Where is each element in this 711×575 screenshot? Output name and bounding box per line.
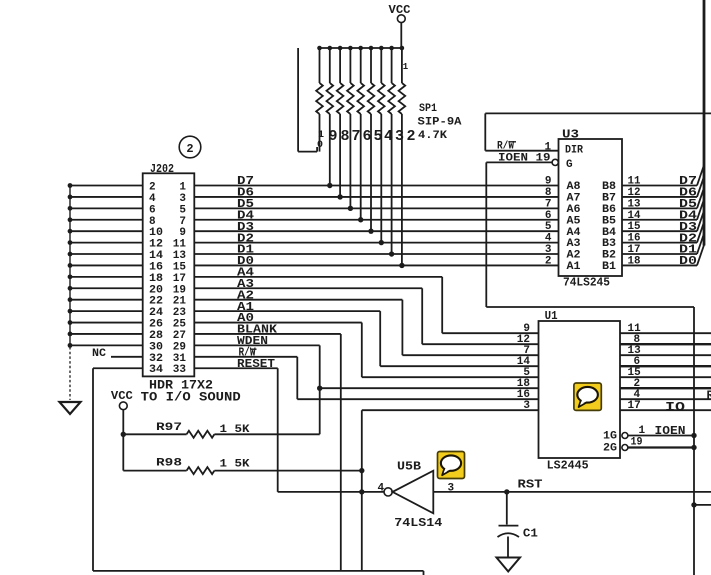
wire D4 diagonal to bus: [697, 199, 704, 220]
wire A0 from J202: [194, 322, 361, 324]
svg-text:28: 28: [149, 330, 163, 342]
wire J202 pin 26 to ground bus: [70, 322, 143, 324]
wire J202 pin 8 to ground bus: [70, 219, 143, 221]
wire J202 pin 24 to ground bus: [70, 310, 143, 312]
inverter U5B 74LS14: [393, 471, 434, 514]
svg-text:B4: B4: [602, 227, 616, 239]
wire R/W from J202: [194, 356, 297, 358]
svg-text:21: 21: [173, 296, 187, 308]
svg-text:R: R: [707, 389, 711, 403]
junction SP1 element 6 to data bus: [368, 228, 373, 233]
svg-text:9: 9: [179, 227, 186, 239]
junction ground bus row 13: [68, 320, 73, 325]
wire U3 B4 out: [622, 230, 697, 232]
svg-text:B5: B5: [602, 215, 616, 227]
junction SP1 element 5 to data bus: [358, 217, 363, 222]
junction SP1 element 9 to data bus: [399, 263, 404, 268]
wire BLANK to bottom rail: [340, 334, 342, 571]
wire WDEN from J202: [194, 344, 319, 346]
wire A2 from J202: [194, 299, 402, 301]
junction RESET riser / RST line: [359, 489, 364, 494]
junction ground bus row 9: [68, 274, 73, 279]
svg-text:2G: 2G: [603, 442, 617, 454]
wire A4 from J202: [194, 276, 442, 278]
svg-text:NC: NC: [92, 348, 106, 360]
svg-text:27: 27: [173, 330, 186, 342]
junction ground bus row 3: [68, 206, 73, 211]
wire U1 out row 4: [620, 365, 711, 367]
wire U1 out row 3: [620, 354, 711, 356]
svg-text:8: 8: [340, 128, 349, 145]
wire U3 B6 out: [622, 207, 697, 209]
svg-text:J202: J202: [150, 162, 174, 176]
svg-text:6: 6: [362, 128, 371, 145]
wire J202 pin 30 to ground bus: [70, 344, 143, 346]
junction ground bus row 2: [68, 195, 73, 200]
junction IOEN / U1 1G: [691, 433, 696, 438]
svg-text:8: 8: [545, 187, 552, 199]
junction IOEN lower stub: [691, 502, 696, 507]
svg-text:A5: A5: [567, 215, 581, 227]
wire D1 from J202: [194, 253, 558, 255]
wire U1 out row 7: [620, 398, 711, 400]
svg-text:26: 26: [149, 319, 163, 331]
wire J202 pin 22 to ground bus: [70, 299, 143, 301]
junction ground bus row 1: [68, 183, 73, 188]
svg-text:1 5K: 1 5K: [220, 459, 250, 471]
junction ground bus row 8: [68, 263, 73, 268]
wire J202 pin 20 to ground bus: [70, 287, 143, 289]
svg-text:11: 11: [173, 239, 187, 251]
resistor R97 1.5K: [123, 433, 186, 435]
junction IOEN / U1 2G: [691, 445, 696, 450]
junction SP1 element 7 to data bus: [379, 240, 384, 245]
svg-text:14: 14: [149, 250, 163, 262]
VCC pullup terminal circle: [119, 402, 127, 410]
annotation icon (on U1): [574, 383, 601, 410]
resistor SP1 element 7: [380, 48, 382, 83]
resistor SP1 element 2: [329, 48, 331, 83]
svg-text:4: 4: [545, 233, 552, 245]
svg-text:LS2445: LS2445: [547, 459, 589, 473]
wire U1 out row 1: [620, 332, 711, 334]
junction SP1 bus dot 2: [328, 46, 333, 51]
junction SP1 bus dot 6: [369, 46, 374, 51]
svg-text:5: 5: [179, 204, 186, 216]
wire U3 B8 out: [622, 185, 697, 187]
wire D4 from J202: [194, 219, 558, 221]
resistor SP1 element 5: [360, 48, 362, 83]
svg-text:29: 29: [173, 341, 186, 353]
wire A2 staircase to U1: [401, 300, 403, 356]
wire D3 from J202: [194, 230, 558, 232]
svg-text:16: 16: [149, 261, 163, 273]
svg-text:A6: A6: [567, 204, 581, 216]
svg-text:19: 19: [631, 437, 643, 449]
svg-text:B3: B3: [602, 238, 616, 250]
svg-text:31: 31: [173, 353, 187, 365]
wire A3 staircase to U1: [421, 288, 423, 344]
junction SP1 bus dot 5: [358, 46, 363, 51]
wire D6 diagonal to bus: [697, 176, 704, 197]
svg-text:2: 2: [406, 128, 415, 145]
wire D7 from J202: [194, 185, 558, 187]
wire U1 1G to IOEN: [628, 435, 694, 437]
connector J202 outline: [143, 173, 195, 376]
svg-text:17: 17: [173, 273, 186, 285]
junction SP1 element 3 to data bus: [337, 194, 342, 199]
wire J202 pin 2 to ground bus: [70, 185, 143, 187]
wire NC stub: [111, 356, 143, 358]
svg-text:19: 19: [173, 284, 186, 296]
wire U3 B1 out: [622, 264, 697, 266]
svg-text:74LS14: 74LS14: [394, 516, 442, 530]
ground (C1): [497, 558, 521, 572]
svg-text:SP1: SP1: [419, 103, 437, 115]
wire WDEN to U1 pin 18: [320, 387, 539, 389]
wire RESET drop to U5B: [277, 368, 279, 492]
wire U1 out row 5: [620, 376, 711, 378]
buffer U1 LS244 outline: [539, 321, 621, 458]
svg-text:32: 32: [149, 353, 163, 365]
junction SP1 bus dot 7: [379, 46, 384, 51]
wire RST to C1: [506, 492, 508, 525]
svg-text:23: 23: [173, 307, 187, 319]
svg-text:74LS245: 74LS245: [563, 276, 610, 290]
wire R/W bus exit (top right): [485, 112, 711, 114]
ground (left bus): [60, 402, 81, 414]
junction SP1 element 2 to data bus: [327, 183, 332, 188]
svg-text:TO I/O SOUND: TO I/O SOUND: [141, 390, 241, 405]
svg-text:4: 4: [384, 128, 393, 145]
svg-text:30: 30: [149, 341, 163, 353]
wire A3 from J202: [194, 287, 422, 289]
svg-text:A7: A7: [567, 193, 581, 205]
overline R/W (J202 fan): [251, 348, 257, 350]
junction ground bus row 6: [68, 240, 73, 245]
svg-text:3: 3: [179, 193, 186, 205]
wire left ground bus: [69, 186, 71, 348]
resistor SP1 element 4: [349, 48, 351, 83]
wire D2 from J202: [194, 242, 558, 244]
wire RESET from J202: [194, 367, 277, 369]
wire data bus (right edge): [703, 0, 706, 246]
svg-text:20: 20: [149, 284, 163, 296]
U5B output bubble: [384, 488, 392, 496]
resistor SP1 element 3: [339, 48, 341, 83]
svg-text:D0: D0: [679, 254, 697, 268]
overline R/W (U3): [510, 141, 517, 143]
svg-text:IOEN: IOEN: [655, 424, 686, 438]
svg-text:10: 10: [149, 227, 163, 239]
wire IOEN to U3 G: [486, 161, 552, 163]
junction ground bus row 11: [68, 297, 73, 302]
svg-text:B1: B1: [602, 261, 616, 273]
wire U1 2G to IOEN: [628, 446, 694, 448]
wire J202 pin 10 to ground bus: [70, 230, 143, 232]
wire D6 from J202: [194, 196, 558, 198]
wire D2 diagonal to bus: [697, 222, 704, 243]
svg-text:B6: B6: [602, 204, 616, 216]
svg-text:7: 7: [545, 198, 552, 210]
resistor SP1 element 9: [401, 48, 403, 83]
svg-text:7: 7: [179, 216, 186, 228]
wire D7 diagonal to bus: [697, 165, 704, 186]
wire U3 B3 out: [622, 242, 697, 244]
junction SP1 element 4 to data bus: [348, 206, 353, 211]
wire R/W to U1 pin 16: [296, 357, 298, 399]
resistor SP1 element 8: [391, 48, 393, 83]
svg-text:R97: R97: [156, 422, 182, 434]
resistor R98 1.5K: [123, 470, 186, 472]
wire J202 pin 16 to ground bus: [70, 264, 143, 266]
wire J202 pin 14 to ground bus: [70, 253, 143, 255]
wire J202 pin 4 to ground bus: [70, 196, 143, 198]
junction ground bus row 15: [68, 343, 73, 348]
wire WDEN drop: [319, 345, 321, 434]
wire U1 out row 6 (bold): [620, 387, 711, 389]
wire BLANK from J202: [194, 333, 340, 335]
svg-text:9: 9: [545, 176, 552, 188]
svg-text:22: 22: [149, 296, 163, 308]
svg-text:A1: A1: [567, 261, 581, 273]
wire U1 out row 4 (bold): [620, 365, 711, 367]
wire U3 B5 out: [622, 219, 697, 221]
U1 2G inversion bubble: [622, 445, 628, 451]
svg-text:B8: B8: [602, 181, 616, 193]
wire A1 staircase to U1: [379, 311, 381, 366]
svg-text:8: 8: [149, 216, 156, 228]
svg-text:3: 3: [545, 244, 552, 256]
svg-text:B7: B7: [602, 193, 616, 205]
wire J202 pin 12 to ground bus: [70, 242, 143, 244]
svg-text:A4: A4: [567, 227, 581, 239]
U3 G inversion bubble: [552, 159, 558, 165]
wire U1 out row 6: [620, 387, 711, 389]
junction SP1 bus dot 9: [400, 46, 405, 51]
resistor SP1 element 1: [319, 48, 321, 83]
VCC terminal circle: [397, 15, 405, 23]
wire U1 out row 8: [620, 409, 711, 411]
svg-text:4: 4: [149, 193, 156, 205]
svg-text:15: 15: [173, 261, 187, 273]
buffer U3 74LS245 outline: [559, 139, 623, 276]
svg-text:4: 4: [378, 482, 385, 494]
svg-text:DIR: DIR: [565, 145, 583, 157]
junction SP1 bus dot 8: [389, 46, 394, 51]
junction ground bus row 7: [68, 252, 73, 257]
wire A4 staircase to U1: [441, 277, 443, 333]
svg-text:12: 12: [149, 239, 163, 251]
svg-text:4.7K: 4.7K: [418, 130, 447, 142]
svg-text:3: 3: [523, 400, 530, 412]
wire U1 out row 2: [620, 343, 711, 345]
wire RESET net riser / U1 pin 3: [361, 410, 363, 571]
wire J202 pin 18 to ground bus: [70, 276, 143, 278]
svg-text:17: 17: [628, 400, 641, 412]
svg-text:3: 3: [395, 128, 404, 145]
svg-text:1: 1: [179, 182, 186, 194]
svg-text:1: 1: [403, 62, 409, 72]
wire right edge stub: [694, 504, 711, 506]
svg-text:25: 25: [173, 319, 187, 331]
svg-text:6: 6: [545, 210, 552, 222]
svg-text:U5B: U5B: [397, 459, 421, 473]
wire J202 pin 28 to ground bus: [70, 333, 143, 335]
svg-text:G: G: [566, 159, 573, 171]
svg-text:VCC: VCC: [111, 389, 133, 403]
wire A1 from J202: [194, 310, 380, 312]
svg-text:A8: A8: [567, 181, 581, 193]
U1 1G inversion bubble: [622, 433, 628, 439]
svg-text:RESET: RESET: [237, 357, 275, 371]
junction SP1 element 8 to data bus: [389, 251, 394, 256]
svg-text:1: 1: [639, 425, 646, 437]
svg-text:IO: IO: [665, 399, 685, 414]
wire D0 diagonal to bus: [697, 244, 704, 265]
svg-text:3: 3: [448, 482, 455, 494]
wire U1 out row 2 (bold): [620, 343, 711, 345]
wire U3 B7 out: [622, 196, 697, 198]
wire left ground bus (lower, faded): [69, 347, 71, 400]
svg-text:7: 7: [351, 128, 360, 145]
svg-text:R98: R98: [156, 458, 183, 470]
svg-text:5: 5: [373, 128, 382, 145]
junction RST / C1: [504, 489, 509, 494]
svg-text:2: 2: [149, 182, 156, 194]
junction ground bus row 4: [68, 217, 73, 222]
svg-text:RST: RST: [518, 478, 543, 492]
svg-text:1 5K: 1 5K: [220, 424, 250, 436]
wire A0 staircase to U1: [361, 323, 363, 378]
junction VCC / R97: [121, 432, 126, 437]
junction ground bus row 14: [68, 332, 73, 337]
capacitor C1: [499, 525, 519, 527]
svg-text:9: 9: [328, 128, 337, 145]
junction ground bus row 10: [68, 286, 73, 291]
wire RST (U5B output): [433, 491, 711, 493]
resistor SP1 element 6: [370, 48, 372, 83]
wire SP1 common bus: [320, 47, 403, 49]
svg-text:18: 18: [149, 273, 163, 285]
junction SP1 bus dot 1: [317, 46, 322, 51]
wire D0 from J202: [194, 264, 558, 266]
svg-text:C1: C1: [523, 527, 538, 541]
svg-text:B2: B2: [602, 250, 616, 262]
junction ground bus row 5: [68, 229, 73, 234]
junction WDEN / U1 pin18: [317, 386, 322, 391]
sheet marker circled 2: [179, 136, 201, 158]
svg-text:24: 24: [149, 307, 163, 319]
svg-text:U3: U3: [562, 128, 579, 142]
svg-text:2: 2: [186, 142, 193, 156]
wire SP1 pin-10 loop: [297, 48, 299, 152]
wire U3 B2 out: [622, 253, 697, 255]
wire VCC to SP1 bus: [400, 23, 402, 48]
wire J202 pin 6 to ground bus: [70, 207, 143, 209]
svg-text:A2: A2: [567, 250, 581, 262]
svg-text:33: 33: [173, 364, 187, 376]
svg-text:1G: 1G: [603, 430, 617, 442]
svg-text:5: 5: [545, 221, 552, 233]
wire D1 diagonal to bus: [697, 233, 704, 254]
svg-text:2: 2: [545, 255, 552, 267]
svg-text:13: 13: [173, 250, 187, 262]
wire J202 pin 34 to bottom rail: [93, 367, 143, 369]
svg-text:U1: U1: [545, 309, 558, 323]
svg-text:SIP-9A: SIP-9A: [418, 117, 462, 129]
junction SP1 bus dot 3: [338, 46, 343, 51]
junction SP1 bus dot 4: [348, 46, 353, 51]
wire R/W to U3 DIR: [485, 150, 558, 152]
wire VCC to R97/R98: [122, 410, 124, 471]
wire IOEN net: [485, 162, 487, 307]
junction ground bus row 12: [68, 309, 73, 314]
wire C1 to ground: [507, 537, 509, 558]
junction R98 to RESET net: [359, 468, 364, 473]
annotation icon (near U5B): [438, 452, 465, 479]
svg-text:6: 6: [149, 204, 156, 216]
wire D3 diagonal to bus: [697, 210, 704, 231]
wire D5 diagonal to bus: [697, 187, 704, 208]
wire D5 from J202: [194, 207, 558, 209]
svg-text:A3: A3: [567, 238, 581, 250]
svg-text:34: 34: [149, 364, 163, 376]
